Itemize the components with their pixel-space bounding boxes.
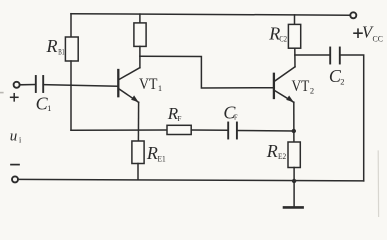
transistor VT2 xyxy=(274,67,295,103)
minus sign at bottom input xyxy=(11,164,19,166)
wire VT1 collector to VT2 base xyxy=(140,56,273,88)
svg-text:C2: C2 xyxy=(279,34,287,43)
plus sign of +Vcc xyxy=(354,29,362,37)
svg-text:E2: E2 xyxy=(278,152,286,161)
svg-text:B1: B1 xyxy=(58,48,64,57)
svg-text:1: 1 xyxy=(47,103,51,113)
wire feedback left segment xyxy=(71,129,167,131)
resistor RE1 xyxy=(132,102,144,179)
resistor RC1 xyxy=(134,14,146,68)
svg-text:E1: E1 xyxy=(158,154,166,163)
svg-text:CC: CC xyxy=(373,34,383,43)
plus sign at input xyxy=(11,94,18,101)
wire C2 right down to bottom rail xyxy=(340,55,364,181)
terminal - (bottom left) xyxy=(12,176,18,182)
capacitor C2 xyxy=(330,48,340,64)
svg-text:2: 2 xyxy=(340,77,344,87)
terminal Vcc (top right) xyxy=(350,12,356,18)
transistor VT1 xyxy=(118,68,140,103)
svg-text:u: u xyxy=(10,128,17,144)
junction dot RE2 / rail / ground xyxy=(292,179,296,183)
wire top supply rail xyxy=(71,14,350,16)
wire bottom rail xyxy=(18,179,364,181)
svg-text:2: 2 xyxy=(310,85,314,95)
capacitor CF xyxy=(228,123,237,139)
wire C1 to VT1 base xyxy=(43,85,117,87)
resistor RE2 xyxy=(288,102,300,181)
paper speck left edge xyxy=(1,92,3,94)
svg-text:F: F xyxy=(234,113,238,122)
wire CF to VT2 emitter node xyxy=(237,130,294,133)
junction dot VT2 emitter / feedback xyxy=(292,129,296,133)
page edge artifact xyxy=(377,151,379,217)
svg-text:R: R xyxy=(146,143,158,163)
svg-text:VT: VT xyxy=(139,76,158,93)
capacitor C1 xyxy=(36,76,43,92)
wire base node down to feedback xyxy=(70,85,72,130)
resistor RB1 xyxy=(65,14,78,85)
resistor RF xyxy=(167,125,191,134)
wire input to C1 xyxy=(20,84,35,86)
svg-text:R: R xyxy=(46,36,58,56)
input terminal + xyxy=(14,82,20,88)
wire RF to CF xyxy=(191,129,228,131)
svg-text:F: F xyxy=(177,114,181,123)
wire collector node to C2 xyxy=(295,54,330,56)
svg-text:R: R xyxy=(266,141,278,161)
resistor RC2 xyxy=(288,15,300,67)
svg-text:VT: VT xyxy=(292,78,310,95)
svg-text:1: 1 xyxy=(158,83,162,93)
ground xyxy=(284,181,303,207)
